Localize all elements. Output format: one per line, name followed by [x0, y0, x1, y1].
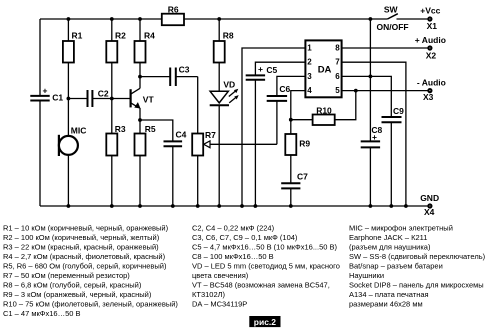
LED VD — [210, 91, 228, 103]
transistor VT — [130, 89, 132, 107]
capacitor C7 — [281, 182, 300, 184]
wire pin 3 to C6 — [277, 76, 306, 96]
wire top rail right segment — [184, 18, 388, 20]
svg-text:R3: R3 — [115, 124, 126, 134]
svg-text:R5: R5 — [145, 124, 156, 134]
svg-text:8: 8 — [335, 44, 340, 53]
capacitor C4 — [164, 140, 183, 142]
svg-text:VT: VT — [143, 95, 155, 105]
wire emitter node — [139, 108, 141, 134]
svg-text:R5, R6 – 680 Ом (голубой, серы: R5, R6 – 680 Ом (голубой, серый, коричне… — [3, 262, 167, 271]
svg-text:6: 6 — [335, 72, 340, 81]
svg-text:R9 – 3 кОм (оранжевый, черный,: R9 – 3 кОм (оранжевый, черный, красный) — [3, 290, 152, 299]
capacitor C2 — [87, 90, 89, 107]
svg-text:R1: R1 — [72, 31, 83, 41]
svg-text:размерами 46х28 мм: размерами 46х28 мм — [349, 300, 423, 309]
svg-text:DA – MC34119P: DA – MC34119P — [192, 300, 247, 309]
wire left vertical with C1 — [39, 19, 41, 96]
wire switch to X1 — [397, 18, 428, 20]
wire R10 links — [291, 119, 313, 121]
IC DA box — [305, 40, 341, 97]
svg-text:R10 – 75 кОм (фиолетовый, зеле: R10 – 75 кОм (фиолетовый, зеленый, оранж… — [3, 300, 178, 309]
svg-text:Bat/snap – разъем батареи: Bat/snap – разъем батареи — [349, 262, 443, 271]
svg-text:C6: C6 — [279, 84, 290, 94]
svg-text:MIC – микрофон электретный: MIC – микрофон электретный — [349, 224, 453, 233]
svg-text:GND: GND — [420, 193, 439, 203]
wire switch vertical to C8 — [369, 19, 371, 141]
svg-text:C3: C3 — [179, 65, 190, 75]
wire R8/LED branch — [218, 19, 220, 41]
wire R4/collector branch — [139, 19, 141, 41]
svg-text:КТ3102Л): КТ3102Л) — [192, 290, 226, 299]
svg-text:рис.2: рис.2 — [254, 317, 277, 327]
svg-text:C1 – 47 мкФх16…50 В: C1 – 47 мкФх16…50 В — [3, 309, 81, 318]
resistor R8 — [214, 41, 225, 63]
potentiometer R7 — [192, 134, 203, 156]
svg-text:C2: C2 — [98, 89, 109, 99]
svg-text:+: + — [43, 86, 48, 96]
svg-text:VT – BC548 (возможная замена B: VT – BC548 (возможная замена BC547, — [192, 281, 330, 290]
figure badge rис.2 — [249, 316, 280, 327]
resistor R1 — [63, 41, 74, 63]
svg-text:R3 – 22 кОм (красный, красный,: R3 – 22 кОм (красный, красный, оранжевый… — [3, 243, 159, 252]
wire top rail left segment — [40, 18, 162, 20]
svg-text:(разъем для наушника): (разъем для наушника) — [349, 243, 431, 252]
svg-text:C4: C4 — [176, 130, 187, 140]
wire pin 4 branch — [291, 91, 306, 134]
svg-text:R2 – 100 кОм (коричневый, черн: R2 – 100 кОм (коричневый, черный, желтый… — [3, 233, 160, 242]
terminal X2 — [427, 45, 432, 50]
terminal X4 — [427, 203, 432, 208]
svg-text:R7: R7 — [205, 130, 216, 140]
wire C3 branch — [140, 76, 170, 78]
terminal X1 — [427, 16, 432, 21]
svg-text:R9: R9 — [299, 139, 310, 149]
svg-text:R8 – 6,8 кОм (голубой, серый,: R8 – 6,8 кОм (голубой, серый, красный) — [3, 281, 142, 290]
resistor R6 — [162, 14, 184, 26]
resistor R4 — [135, 41, 146, 63]
capacitor C6 — [267, 95, 287, 97]
capacitor C3 — [169, 68, 171, 87]
svg-text:C5: C5 — [266, 65, 277, 75]
wire base of VT — [112, 98, 130, 100]
microphone MIC — [59, 136, 78, 155]
svg-text:X2: X2 — [426, 50, 437, 60]
svg-text:X1: X1 — [427, 21, 438, 31]
wire R2/R3 branch — [111, 19, 113, 41]
wire pin 1 to ground — [242, 48, 305, 206]
wire R7 wiper — [210, 143, 277, 145]
parts list column 2 — [192, 224, 340, 309]
svg-text:R6: R6 — [168, 4, 179, 14]
wire C4 branch — [140, 120, 173, 141]
svg-text:C5 – 4,7 мкФх16…50 В (10 мкФх1: C5 – 4,7 мкФх16…50 В (10 мкФх16...50 В) — [192, 243, 338, 252]
svg-text:MIC: MIC — [71, 126, 87, 136]
svg-text:4: 4 — [307, 86, 312, 95]
capacitor C5 — [246, 74, 265, 76]
resistor R5 — [135, 134, 146, 156]
svg-text:+Vcc: +Vcc — [420, 6, 440, 16]
svg-text:1: 1 — [307, 44, 312, 53]
parts list column 1 — [3, 224, 178, 319]
svg-text:R7 – 50 кОм (переменный резист: R7 – 50 кОм (переменный резистор) — [3, 271, 130, 280]
wire pin 7 to ground — [342, 62, 406, 206]
svg-text:C2, C4 – 0,22 мкФ (224): C2, C4 – 0,22 мкФ (224) — [192, 224, 275, 233]
svg-text:R2: R2 — [115, 31, 126, 41]
wire bottom ground rail — [40, 205, 428, 207]
svg-text:цвета свечения): цвета свечения) — [192, 271, 249, 280]
svg-text:X4: X4 — [424, 207, 435, 217]
wire pin 6 to C9 — [342, 76, 392, 117]
svg-text:- Audio: - Audio — [417, 78, 446, 88]
svg-text:X3: X3 — [423, 92, 434, 102]
svg-text:R1 – 10 кОм (коричневый, черны: R1 – 10 кОм (коричневый, черный, оранжев… — [3, 224, 169, 233]
svg-text:7: 7 — [335, 58, 340, 67]
resistor R2 — [106, 41, 117, 63]
wire pin 2 to C5 — [255, 62, 305, 75]
svg-text:VD – LED 5 mm (светодиод 5 мм,: VD – LED 5 mm (светодиод 5 мм, красного — [192, 262, 340, 271]
svg-text:R8: R8 — [223, 31, 234, 41]
switch SW lever — [388, 14, 398, 19]
capacitor C1 — [30, 95, 49, 97]
svg-text:Socket DIP8 – панель для микро: Socket DIP8 – панель для микросхемы — [349, 281, 484, 290]
svg-text:VD: VD — [223, 80, 235, 90]
svg-text:Наушники: Наушники — [349, 271, 384, 280]
svg-text:ON/OFF: ON/OFF — [377, 22, 409, 32]
svg-text:+: + — [258, 64, 263, 74]
wire C2 link — [68, 98, 87, 100]
svg-text:A134 – плата печатная: A134 – плата печатная — [349, 290, 429, 299]
capacitor C8 — [361, 140, 380, 142]
svg-text:C8 – 100 мкФх16…50 В: C8 – 100 мкФх16…50 В — [192, 252, 274, 261]
svg-text:C9: C9 — [393, 106, 404, 116]
svg-text:3: 3 — [307, 72, 312, 81]
wire pin 8 to X2 — [342, 47, 428, 49]
svg-text:C3, C6, C7, C9 – 0,1 мкФ (104): C3, C6, C7, C9 – 0,1 мкФ (104) — [192, 233, 298, 242]
wire pin 5 to X3 — [342, 90, 428, 92]
wire R1 branch — [67, 19, 69, 41]
svg-text:SW: SW — [384, 5, 399, 15]
svg-text:C1: C1 — [52, 93, 63, 103]
svg-text:+ Audio: + Audio — [415, 35, 446, 45]
terminal X3 — [427, 88, 432, 93]
svg-text:R10: R10 — [316, 106, 332, 116]
capacitor C9 — [382, 116, 402, 118]
resistor R3 — [106, 134, 117, 156]
parts list column 3 — [349, 224, 486, 309]
svg-text:2: 2 — [307, 58, 312, 67]
svg-text:DA: DA — [318, 65, 332, 76]
resistor R10 — [313, 115, 335, 126]
svg-text:5: 5 — [335, 86, 340, 95]
svg-text:C7: C7 — [297, 172, 308, 182]
svg-text:SW – SS-8 (сдвиговый переключа: SW – SS-8 (сдвиговый переключатель) — [349, 252, 486, 261]
resistor R9 — [285, 134, 296, 155]
svg-text:R4 – 2,7 кОм (красный, фиолето: R4 – 2,7 кОм (красный, фиолетовый, красн… — [3, 252, 166, 261]
svg-text:Earphone JACK – К211: Earphone JACK – К211 — [349, 233, 427, 242]
svg-text:+: + — [372, 132, 377, 142]
svg-text:R4: R4 — [144, 31, 155, 41]
